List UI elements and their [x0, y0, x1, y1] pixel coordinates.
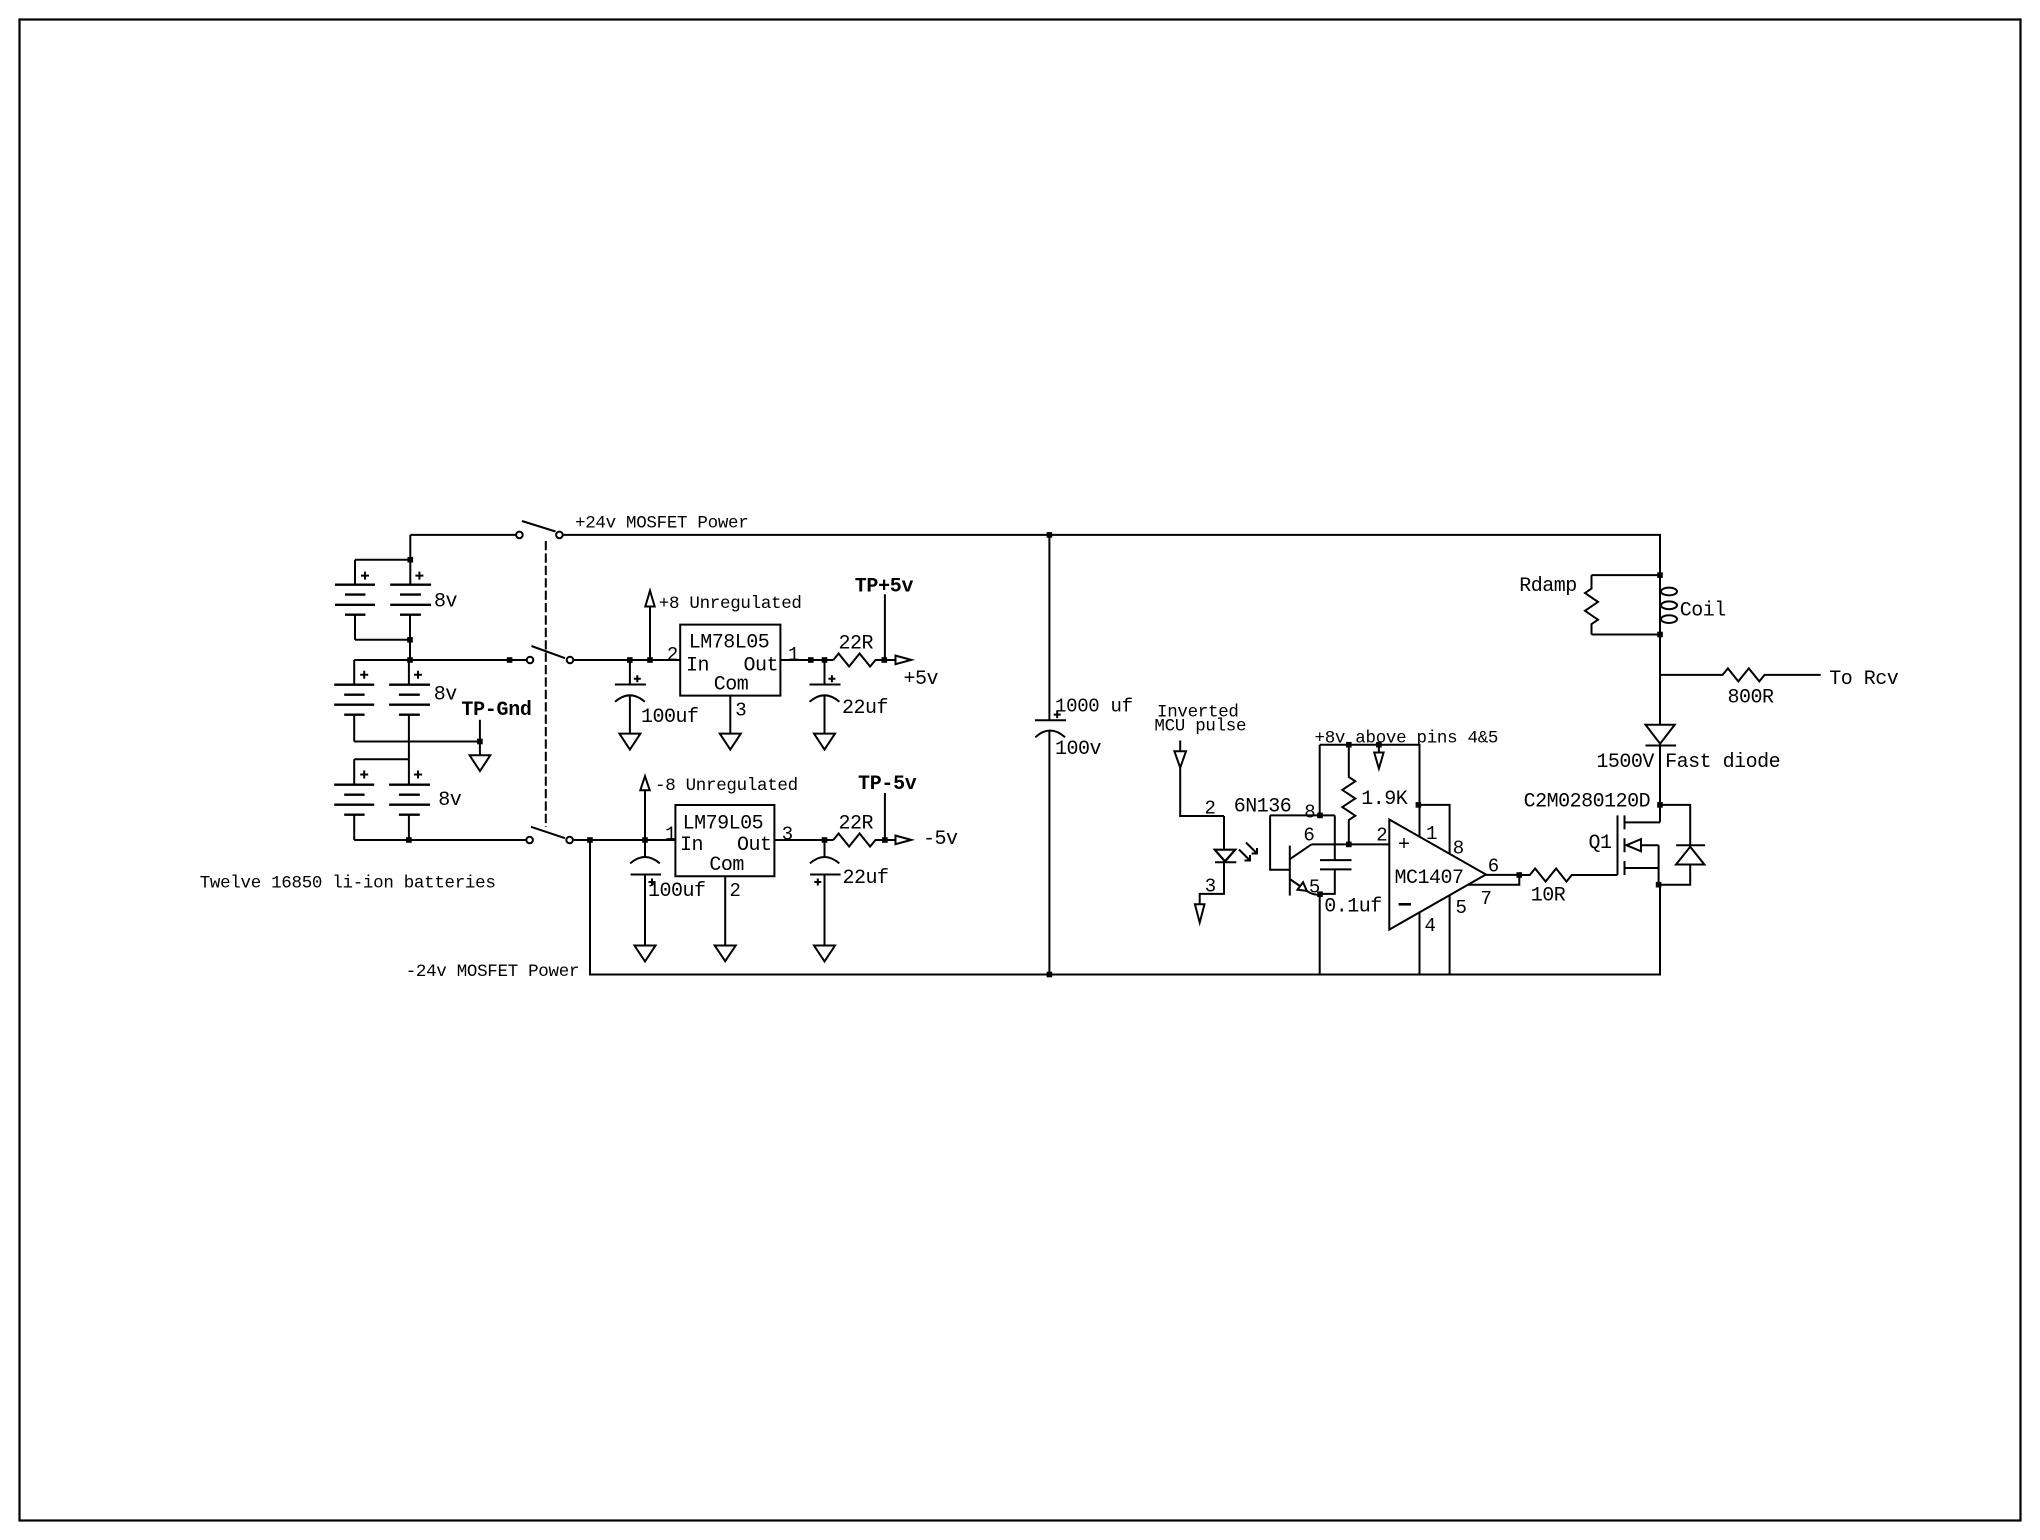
svg-text:10R: 10R: [1531, 884, 1566, 907]
svg-text:2: 2: [1205, 798, 1216, 820]
svg-text:Com: Com: [714, 673, 749, 696]
svg-text:Twelve 16850 li-ion batteries: Twelve 16850 li-ion batteries: [200, 874, 496, 894]
svg-text:800R: 800R: [1728, 687, 1775, 710]
svg-text:+8v above pins 4&5: +8v above pins 4&5: [1315, 729, 1499, 749]
svg-text:22uf: 22uf: [843, 867, 889, 890]
svg-text:1: 1: [665, 824, 676, 846]
svg-text:100uf: 100uf: [641, 706, 699, 729]
svg-text:In: In: [680, 834, 703, 857]
svg-text:100uf: 100uf: [648, 880, 706, 903]
svg-text:3: 3: [782, 824, 793, 846]
svg-text:C2M0280120D: C2M0280120D: [1524, 791, 1651, 814]
svg-text:Rdamp: Rdamp: [1519, 575, 1577, 598]
svg-text:+5v: +5v: [904, 668, 939, 691]
svg-text:LM79L05: LM79L05: [683, 813, 764, 836]
svg-text:TP-5v: TP-5v: [858, 773, 917, 796]
svg-text:-5v: -5v: [923, 828, 958, 851]
svg-text:Fast diode: Fast diode: [1665, 751, 1780, 774]
svg-text:LM78L05: LM78L05: [689, 632, 770, 655]
svg-text:3: 3: [1205, 875, 1216, 897]
svg-text:22R: 22R: [839, 633, 874, 656]
svg-text:3: 3: [735, 699, 746, 721]
svg-text:Out: Out: [744, 655, 779, 678]
svg-text:6: 6: [1303, 825, 1314, 847]
svg-text:+: +: [1398, 834, 1410, 857]
svg-text:Q1: Q1: [1589, 832, 1613, 855]
svg-text:-8 Unregulated: -8 Unregulated: [655, 776, 798, 796]
svg-text:7: 7: [1481, 888, 1492, 910]
svg-text:1.9K: 1.9K: [1361, 788, 1408, 811]
svg-text:22uf: 22uf: [842, 697, 888, 720]
svg-text:8v: 8v: [434, 591, 458, 614]
svg-text:1: 1: [788, 644, 799, 666]
svg-text:8v: 8v: [438, 789, 462, 812]
svg-text:-24v MOSFET Power: -24v MOSFET Power: [406, 962, 579, 982]
svg-text:MC1407: MC1407: [1395, 867, 1464, 890]
svg-text:MCU pulse: MCU pulse: [1154, 717, 1246, 737]
svg-text:8: 8: [1453, 838, 1464, 860]
svg-text:TP-Gnd: TP-Gnd: [461, 699, 531, 722]
svg-text:2: 2: [1376, 825, 1387, 847]
svg-text:1: 1: [1426, 823, 1437, 845]
svg-text:8: 8: [1304, 802, 1315, 824]
svg-text:Com: Com: [709, 854, 744, 877]
svg-text:TP+5v: TP+5v: [855, 576, 914, 599]
svg-text:1500V: 1500V: [1596, 751, 1654, 774]
svg-text:2: 2: [667, 644, 678, 666]
svg-text:Coil: Coil: [1680, 600, 1726, 623]
svg-text:+24v MOSFET Power: +24v MOSFET Power: [575, 514, 748, 534]
svg-text:6N136: 6N136: [1234, 796, 1292, 819]
svg-text:2: 2: [730, 880, 741, 902]
svg-text:0.1uf: 0.1uf: [1324, 896, 1382, 919]
svg-text:5: 5: [1309, 877, 1320, 899]
svg-text:100v: 100v: [1055, 738, 1102, 761]
svg-text:5: 5: [1456, 897, 1467, 919]
svg-text:6: 6: [1488, 856, 1499, 878]
svg-text:+8 Unregulated: +8 Unregulated: [659, 594, 802, 614]
svg-text:22R: 22R: [839, 813, 874, 836]
svg-text:4: 4: [1425, 915, 1436, 937]
svg-text:In: In: [686, 655, 709, 678]
svg-text:To Rcv: To Rcv: [1829, 668, 1899, 691]
svg-text:1000 uf: 1000 uf: [1055, 696, 1133, 718]
svg-text:8v: 8v: [434, 684, 458, 707]
